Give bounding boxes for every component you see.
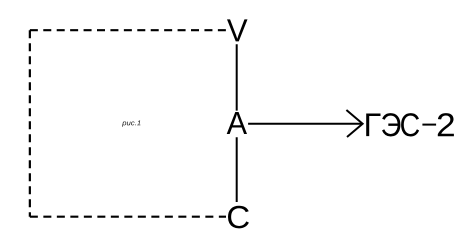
- terminal A: [227, 112, 247, 134]
- dashed box: bottom edge: [30, 216, 226, 218]
- terminal C: [228, 206, 249, 229]
- dashed box: top edge: [30, 29, 226, 31]
- terminal V: [227, 19, 248, 41]
- wire A-C: [236, 137, 238, 202]
- wire V-A: [236, 44, 238, 110]
- caption рис.1: [122, 120, 141, 126]
- arrowhead: [346, 110, 362, 137]
- arrow wire to ГЭС-2: [248, 123, 362, 125]
- label ГЭС-2: [366, 113, 454, 136]
- dashed box: left edge: [29, 30, 31, 217]
